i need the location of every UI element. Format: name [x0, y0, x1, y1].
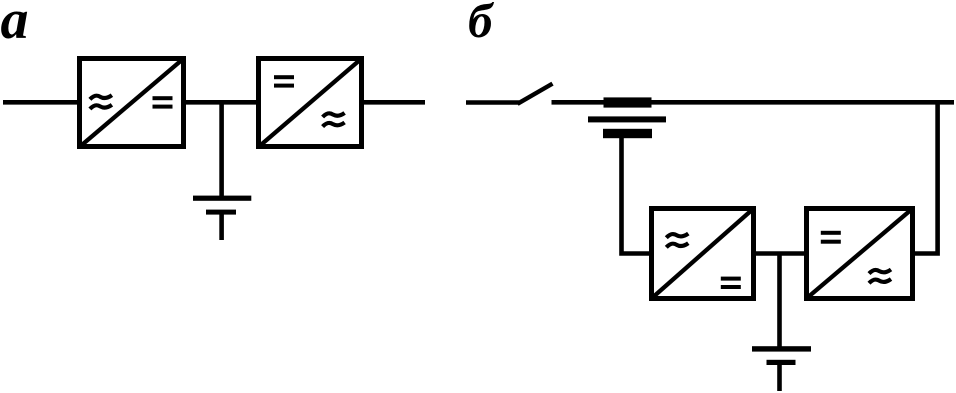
battery GB2 middle thin plate (figure b) — [588, 116, 666, 122]
battery GB3 long plate (figure b) — [752, 346, 811, 351]
U2 DC symbol (equals sign) — [274, 75, 294, 87]
wire: drop from DC link to battery GB1 (figure a) — [219, 100, 224, 196]
battery GB3 bottom lead (figure b) — [777, 365, 782, 391]
switch SA1 blade (figure b) — [518, 84, 553, 104]
U2 AC symbol (approx sign) — [323, 113, 345, 127]
U1 AC symbol (approx sign) — [90, 95, 112, 109]
U1 DC symbol (equals sign) — [153, 96, 173, 108]
wire: from battery GB2 down and right to U3 input (figure b) — [622, 138, 652, 254]
wire: top DC bus (figure b) — [552, 100, 955, 105]
converter U1 rectifier box (figure a) — [80, 59, 184, 147]
U1 diagonal — [80, 59, 183, 147]
converter U3 rectifier box (figure b) — [652, 209, 754, 299]
converter U2 inverter box (figure a) — [259, 59, 362, 147]
U3 DC symbol (equals sign) — [721, 277, 741, 289]
battery GB1 long plate (figure a) — [193, 196, 251, 201]
wire: right vertical from bus down to U4 output (figure b) — [913, 100, 938, 254]
wire: DC link between U3 and U4 (figure b) — [756, 251, 806, 256]
svg-text:б: б — [468, 0, 495, 48]
battery GB2 top thick plate on bus (figure b) — [604, 97, 652, 107]
wire: AC input of figure a — [3, 100, 79, 105]
battery GB2 bottom thick plate (figure b) — [603, 129, 652, 138]
battery GB3 short plate (figure b) — [767, 360, 796, 365]
U3 diagonal — [652, 209, 753, 298]
label а (figure a) — [1, 0, 29, 51]
wire: DC link between U1 and U2 (figure a) — [184, 100, 258, 105]
battery GB1 short plate (figure a) — [206, 210, 236, 215]
wire: AC output of figure a — [362, 100, 425, 105]
wire: drop from DC link to battery GB3 (figure b) — [777, 252, 782, 348]
svg-text:а: а — [1, 0, 29, 51]
wire: switch left terminal (figure b) — [466, 100, 519, 105]
U4 DC symbol (equals sign) — [821, 231, 841, 244]
U4 diagonal — [807, 209, 912, 298]
U2 diagonal — [259, 59, 361, 147]
battery GB1 bottom lead (figure a) — [219, 214, 224, 240]
U3 AC symbol (approx sign) — [666, 234, 688, 248]
label б (figure b) — [468, 0, 495, 48]
converter U4 inverter box (figure b) — [807, 209, 913, 299]
U4 AC symbol (approx sign) — [869, 270, 891, 284]
